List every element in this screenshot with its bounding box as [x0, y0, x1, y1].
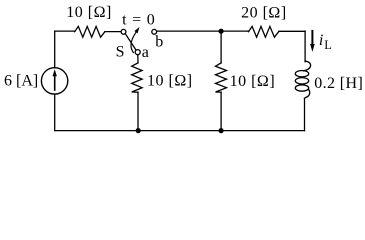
wire from R2b down to bottom rail node: [220, 92, 222, 130]
inductor L loop 1: [295, 71, 308, 77]
svg-text:L: L: [324, 38, 332, 52]
node junction dot bottom at x=138: [136, 128, 141, 133]
wire right column bottom (inductor to bottom rail): [304, 98, 306, 130]
wire from contact b to node at x=221 and on to resistor R3: [157, 30, 249, 32]
wire right column top (corner down to inductor): [304, 31, 306, 62]
svg-text:10 [Ω]: 10 [Ω]: [230, 73, 276, 90]
svg-text:6 [A]: 6 [A]: [4, 72, 38, 89]
svg-text:b: b: [155, 34, 163, 51]
wire from contact a down to resistor R2a: [137, 55, 139, 63]
svg-text:a: a: [142, 44, 149, 61]
svg-text:0.2 [H]: 0.2 [H]: [314, 75, 363, 92]
wire from R3 to top-right corner: [279, 30, 305, 32]
svg-text:10 [Ω]: 10 [Ω]: [66, 4, 112, 21]
bottom rail wire: [55, 130, 305, 132]
resistor R2a 10 ohm (middle-left vertical zigzag): [132, 63, 142, 92]
inductor current iL arrow: [311, 30, 313, 46]
node junction dot top at x=221: [219, 29, 224, 34]
inductor L loop 2: [295, 78, 308, 84]
resistor R2b 10 ohm (middle-right vertical zigzag): [216, 63, 227, 92]
wire left column lower (current source to bottom corner): [54, 94, 56, 130]
wire top-left horizontal from left column to resistor R1: [55, 30, 75, 32]
svg-text:20 [Ω]: 20 [Ω]: [241, 4, 287, 21]
svg-text:i: i: [319, 32, 323, 49]
wire from top node x=221 down to resistor R2b: [220, 31, 222, 63]
switch arrow head: [134, 27, 139, 34]
wire left column upper (top corner down to current source): [54, 31, 56, 68]
inductor L exit hook (bottom): [305, 89, 310, 98]
switch S arm blade from pole to contact a: [125, 34, 136, 51]
switch pole terminal circle: [121, 29, 126, 34]
resistor R1 10 ohm (top left, horizontal zigzag): [75, 26, 105, 37]
inductor L loop 3: [295, 85, 308, 91]
switch contact a terminal circle: [135, 50, 140, 55]
svg-text:t = 0: t = 0: [122, 12, 155, 29]
switch contact b terminal circle: [152, 29, 157, 34]
wire from R2a down to bottom rail node: [137, 92, 139, 130]
svg-text:S: S: [116, 44, 125, 61]
resistor R3 20 ohm (top right, horizontal zigzag): [249, 26, 279, 37]
current source arrow: [54, 76, 56, 91]
inductor L 0.2 H entry hook (top): [303, 61, 310, 71]
wire from R1 to switch pole: [105, 31, 121, 33]
node junction dot bottom at x=221: [219, 128, 224, 133]
current source circle 6 A: [41, 68, 67, 94]
switch throw direction curved arrow: [131, 32, 136, 52]
svg-text:10 [Ω]: 10 [Ω]: [147, 72, 193, 89]
